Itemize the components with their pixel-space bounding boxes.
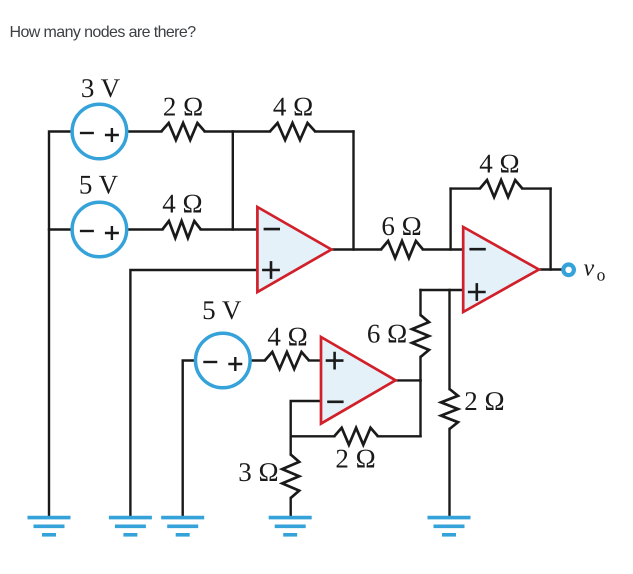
ground G3 — [161, 518, 204, 535]
wire U3 output — [396, 379, 421, 381]
svg-text:2 Ω: 2 Ω — [335, 444, 375, 474]
wire 2-ohm feedback left — [291, 435, 335, 437]
wire 5V bottom minus to ground rail — [183, 361, 195, 516]
voltage source V1 3V — [72, 104, 127, 159]
wire 6-ohm to U2 inverting input — [423, 248, 463, 250]
node vo output terminal — [563, 265, 574, 276]
label R1 2 ohm — [163, 92, 203, 122]
ground G1 — [28, 518, 71, 535]
svg-text:vo: vo — [584, 256, 606, 285]
label V2 5 V — [79, 170, 119, 200]
voltage source V2 5V — [72, 202, 127, 257]
resistor R8 2-ohm vertical — [441, 389, 458, 429]
wire junction to 2-ohm vertical top — [448, 290, 450, 389]
wire 5V- to left rail — [49, 228, 71, 230]
label R5 4 ohm — [479, 149, 519, 179]
wire U2 feedback top left — [451, 187, 480, 189]
wire node A vertical junction — [232, 132, 234, 230]
wire left rail from 3V- — [49, 132, 71, 516]
svg-text:5 V: 5 V — [79, 170, 119, 200]
label R6 4 ohm — [267, 322, 307, 352]
resistor R5 4-ohm U2 feedback — [480, 180, 523, 197]
wire U2 feedback right vertical to output — [549, 189, 551, 270]
resistor R2 4-ohm U1 feedback — [270, 123, 315, 140]
wire U3 inverting input — [291, 401, 321, 436]
wire 3-ohm to ground — [290, 498, 292, 516]
wire U1 noninverting input to ground rail — [130, 270, 257, 516]
label V1 3 V — [81, 73, 121, 103]
svg-text:4 Ω: 4 Ω — [162, 189, 202, 219]
svg-text:3 Ω: 3 Ω — [238, 457, 278, 487]
ground G4 — [269, 518, 312, 535]
resistor R7 6-ohm vertical — [412, 315, 429, 357]
wire 3-ohm top stub — [290, 436, 292, 454]
label R8 2 ohm — [464, 386, 504, 416]
wire row1: 3V+ to 2-ohm — [128, 130, 162, 132]
resistor R6 4-ohm — [265, 352, 309, 369]
svg-text:2 Ω: 2 Ω — [163, 92, 203, 122]
label R4 6 ohm — [381, 211, 421, 241]
wire U2 feedback left vertical — [449, 189, 451, 250]
wire 6-ohm vertical bottom stub to U3 output node — [419, 357, 421, 380]
svg-text:6 Ω: 6 Ω — [381, 211, 421, 241]
svg-text:2 Ω: 2 Ω — [464, 386, 504, 416]
wire row2: 5V+ to 4-ohm — [128, 228, 163, 230]
wire 2-ohm feedback right — [378, 435, 421, 437]
wire row2: 4-ohm to U1 inverting input — [201, 228, 258, 230]
svg-text:3 V: 3 V — [81, 73, 121, 103]
label R9 2 ohm — [335, 444, 375, 474]
op-amp U2 — [463, 227, 539, 312]
wire U3 output node down to 2-ohm feedback — [419, 380, 421, 436]
voltage source V3 5V — [196, 333, 251, 388]
label R3 4 ohm — [162, 189, 202, 219]
svg-text:5 V: 5 V — [202, 295, 242, 325]
wire row1: 4-ohm to feedback corner — [315, 130, 353, 132]
svg-text:6 Ω: 6 Ω — [367, 319, 407, 349]
wire row1: 2-ohm to node A and 4-ohm — [205, 130, 270, 132]
resistor R9 2-ohm U3 feedback — [334, 428, 378, 445]
wire row3: 5V+ to 4-ohm — [251, 359, 265, 361]
op-amp U3 — [321, 337, 396, 424]
svg-text:4 Ω: 4 Ω — [267, 322, 307, 352]
label R10 3 ohm — [238, 457, 278, 487]
wire U2 output to vo terminal — [539, 268, 562, 270]
resistor R4 6-ohm — [381, 241, 423, 258]
ground G2 — [109, 518, 152, 535]
label V3 5 V — [202, 295, 242, 325]
label R7 6 ohm — [367, 319, 407, 349]
wire U2 noninverting input — [421, 289, 464, 291]
wire 2-ohm vertical to ground — [448, 429, 450, 516]
wire row3: 4-ohm to U3 noninverting input — [309, 359, 321, 361]
ground G5 — [428, 518, 471, 535]
question text — [10, 25, 196, 41]
wire U2 feedback top right — [522, 187, 550, 189]
wire U1 feedback vertical — [352, 132, 354, 250]
resistor R10 3-ohm vertical — [282, 455, 299, 499]
label vo — [584, 256, 606, 285]
svg-text:4 Ω: 4 Ω — [273, 91, 313, 121]
wire 6-ohm vertical top stub — [419, 290, 421, 315]
op-amp U1 — [257, 207, 331, 292]
resistor R3 4-ohm — [162, 221, 200, 238]
svg-text:4 Ω: 4 Ω — [479, 149, 519, 179]
wire U1 output to 6-ohm — [331, 248, 381, 250]
label R2 4 ohm — [273, 91, 313, 121]
resistor R1 2-ohm — [161, 123, 205, 140]
